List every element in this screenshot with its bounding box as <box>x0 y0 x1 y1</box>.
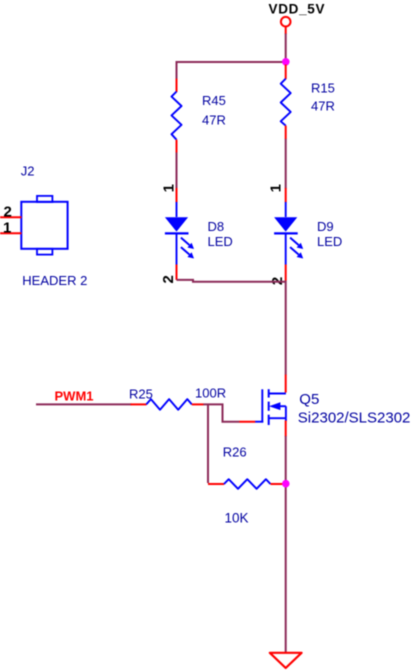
wire R45 to D8 <box>176 153 178 189</box>
svg-text:Q5: Q5 <box>299 391 319 408</box>
svg-text:2: 2 <box>3 203 11 220</box>
wire D8 bottom to D9 bottom with jog <box>177 280 286 282</box>
junction dot R26 <box>282 480 290 488</box>
svg-text:1: 1 <box>3 219 11 236</box>
svg-text:Si2302/SLS2302: Si2302/SLS2302 <box>298 409 411 426</box>
resistor R15 <box>281 65 335 140</box>
wire PWM1 <box>36 403 132 405</box>
wire R15 to D9 <box>285 139 287 189</box>
svg-text:10K: 10K <box>225 510 249 525</box>
svg-text:LED: LED <box>208 234 233 249</box>
power symbol VDD_5V <box>269 2 326 34</box>
wire D9 to Q5 drain <box>285 281 287 375</box>
wire left branch down <box>176 61 178 79</box>
svg-text:100R: 100R <box>195 385 226 400</box>
svg-text:J2: J2 <box>21 163 35 178</box>
wire top horizontal <box>177 61 286 63</box>
svg-text:D8: D8 <box>208 219 225 234</box>
svg-text:1: 1 <box>268 184 285 192</box>
junction dot top <box>282 58 290 66</box>
resistor R26 <box>208 445 284 526</box>
wire T-branch down to R26 <box>207 404 209 483</box>
resistor R45 <box>172 79 226 153</box>
svg-text:R45: R45 <box>202 93 226 108</box>
svg-text:1: 1 <box>160 184 177 192</box>
svg-text:47R: 47R <box>311 99 335 114</box>
svg-text:2: 2 <box>160 275 177 283</box>
svg-text:R26: R26 <box>223 445 247 460</box>
transistor Q5 <box>239 375 410 437</box>
svg-text:R25: R25 <box>129 386 153 401</box>
header J2 <box>0 163 87 288</box>
svg-text:VDD_5V: VDD_5V <box>269 2 326 17</box>
wire VDD_5V vertical <box>285 34 287 63</box>
wire Q5 source to ground <box>285 436 287 652</box>
svg-text:PWM1: PWM1 <box>55 389 94 404</box>
svg-text:47R: 47R <box>202 113 226 128</box>
LED D9 <box>274 188 342 281</box>
wire R25 to gate corner <box>203 404 239 421</box>
ground <box>270 653 302 668</box>
LED D8 <box>165 188 233 280</box>
resistor R25 <box>129 385 226 409</box>
svg-text:D9: D9 <box>317 219 334 234</box>
svg-text:HEADER 2: HEADER 2 <box>22 273 87 288</box>
svg-text:LED: LED <box>317 234 342 249</box>
svg-text:R15: R15 <box>311 81 335 96</box>
